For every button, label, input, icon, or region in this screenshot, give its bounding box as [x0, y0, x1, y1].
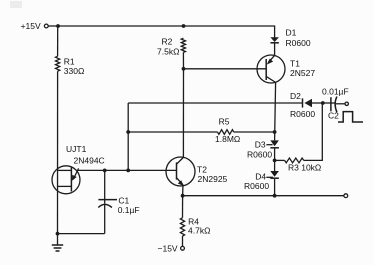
- svg-text:UJT1: UJT1: [66, 144, 87, 154]
- wire D4 to bottom rail: [274, 178, 276, 196]
- svg-text:R5: R5: [219, 117, 230, 127]
- svg-text:R0600: R0600: [290, 109, 315, 119]
- junction R5 left: [126, 130, 130, 134]
- svg-text:R1: R1: [64, 57, 75, 67]
- svg-text:D2: D2: [290, 91, 301, 101]
- wire T2 emitter down: [182, 185, 184, 196]
- svg-text:2N2925: 2N2925: [198, 174, 228, 184]
- node C2 output terminal: [345, 102, 348, 105]
- wire R3 left lead: [275, 159, 285, 161]
- svg-text:D1: D1: [286, 28, 297, 38]
- node -15V terminal: [181, 246, 185, 250]
- wire rail B horizontal (UJT emitter to D2/C2): [128, 102, 302, 104]
- node +15V terminal: [44, 24, 48, 28]
- wire R1 bottom to UJT and ground column: [57, 71, 59, 233]
- svg-text:1.8MΩ: 1.8MΩ: [215, 134, 240, 144]
- ground: [52, 234, 63, 251]
- transistor T2 2N2925 NPN: [166, 157, 195, 186]
- diode D3: [270, 140, 279, 147]
- wire R5 line: [128, 131, 217, 133]
- junction R5 right / D3 top: [273, 130, 277, 134]
- wire D3 to R3 junction: [274, 148, 276, 171]
- junction rail B bottom: [126, 169, 130, 173]
- pulse waveform symbol: [338, 112, 363, 122]
- wire T1 base: [184, 68, 267, 70]
- junction D4 bottom: [273, 194, 277, 198]
- svg-text:330Ω: 330Ω: [64, 66, 85, 76]
- svg-text:+15V: +15V: [21, 21, 41, 31]
- svg-text:R0600: R0600: [244, 181, 269, 191]
- svg-text:C1: C1: [118, 195, 129, 205]
- wire R2 bottom lead: [182, 52, 184, 68]
- wire D1 to T1 emitter: [274, 43, 276, 56]
- unijunction transistor UJT1 2N494C: [52, 166, 80, 194]
- svg-text:2N527: 2N527: [290, 68, 315, 78]
- wire top rail right with corner to D1: [184, 26, 275, 38]
- wire +15V lead: [48, 25, 58, 27]
- capacitor C2: [331, 97, 337, 113]
- wire R1 top lead: [57, 26, 59, 56]
- wire rail B vertical: [127, 103, 129, 170]
- resistor R1: [56, 56, 60, 71]
- svg-text:R0600: R0600: [247, 149, 272, 159]
- svg-text:−15V: −15V: [158, 243, 178, 253]
- svg-text:R0600: R0600: [286, 38, 311, 48]
- wire R2 column down to T2 collector: [182, 69, 184, 158]
- diode D4: [270, 171, 279, 178]
- junction T2 emitter / R4: [181, 194, 185, 198]
- wire R4 top lead: [182, 196, 184, 218]
- wire R5 right lead: [234, 131, 275, 133]
- node output terminal: [344, 194, 348, 198]
- junction R2 top: [182, 24, 186, 28]
- capacitor C1: [98, 170, 117, 233]
- svg-text:R3 10kΩ: R3 10kΩ: [288, 163, 321, 173]
- svg-text:4.7kΩ: 4.7kΩ: [188, 226, 210, 236]
- svg-text:0.01µF: 0.01µF: [322, 86, 349, 96]
- svg-text:R2: R2: [162, 36, 173, 46]
- diode D2: [303, 98, 313, 107]
- resistor R5: [218, 130, 234, 135]
- resistor R4: [180, 218, 184, 236]
- diode D1: [270, 37, 279, 43]
- junction R3 left: [273, 159, 277, 163]
- svg-text:2N494C: 2N494C: [74, 155, 105, 165]
- svg-text:7.5kΩ: 7.5kΩ: [157, 47, 179, 57]
- junction D2/C2/R3: [321, 101, 325, 105]
- wire R3 right lead and corner up to C2 junction: [304, 103, 323, 160]
- wire top rail: [58, 25, 184, 27]
- wire R4 bottom lead: [182, 236, 184, 246]
- junction ground: [56, 232, 60, 236]
- wire C2 right lead: [336, 103, 345, 105]
- scan smudge top-left: [10, 1, 22, 8]
- svg-text:C2: C2: [328, 110, 339, 120]
- junction R2 bottom / T1 base: [182, 67, 186, 71]
- wire C2 left lead: [323, 102, 335, 104]
- svg-text:0.1µF: 0.1µF: [118, 205, 140, 215]
- transistor T1 2N527 PNP: [257, 55, 285, 83]
- junction top-left: [56, 24, 60, 28]
- junction C1 top: [103, 169, 107, 173]
- resistor R2: [181, 38, 185, 52]
- wire bottom rail to output: [183, 195, 344, 197]
- resistor R3: [285, 158, 304, 163]
- wire UJT emitter to T2 base: [77, 169, 177, 171]
- wire T1 collector down: [275, 82, 276, 140]
- wire C1 bottom to ground column: [58, 233, 105, 235]
- svg-text:D4: D4: [255, 171, 266, 181]
- wire D2 to C2 junction: [312, 102, 323, 104]
- svg-text:D3: D3: [255, 139, 266, 149]
